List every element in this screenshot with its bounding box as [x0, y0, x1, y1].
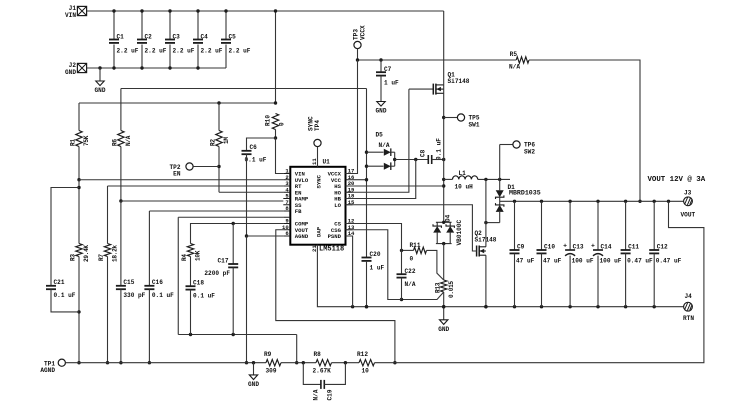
svg-text:FB: FB [295, 208, 302, 215]
svg-text:C14: C14 [601, 244, 612, 251]
svg-text:2.67K: 2.67K [313, 368, 332, 375]
wire C5 top lead [225, 11, 227, 39]
pin nc [283, 216, 290, 218]
capacitor C18 0.1uF [186, 285, 196, 287]
svg-text:0.1 uF: 0.1 uF [54, 292, 76, 299]
svg-text:C16: C16 [152, 279, 163, 286]
svg-text:C12: C12 [657, 244, 668, 251]
svg-text:R3: R3 [70, 254, 77, 261]
wire C16 bottom [148, 289, 150, 363]
capacitor C5 [221, 39, 231, 41]
wire R2 bottom to EN [218, 147, 220, 193]
wire D4 to R13 [443, 244, 445, 280]
svg-text:PSND: PSND [328, 233, 342, 240]
wire C15 top [120, 201, 122, 286]
wire AGND rail [65, 362, 266, 364]
wire COMP net [191, 224, 284, 244]
svg-text:R4: R4 [181, 254, 188, 261]
svg-text:SW2: SW2 [524, 149, 535, 156]
svg-text:TP5: TP5 [469, 115, 480, 122]
svg-text:10K: 10K [195, 250, 202, 261]
wire D1 mid [499, 197, 501, 205]
wire comp ground bus [178, 334, 296, 336]
svg-text:LO: LO [334, 202, 341, 209]
svg-text:R8: R8 [314, 351, 322, 358]
svg-text:0: 0 [410, 256, 414, 263]
svg-text:C5: C5 [229, 34, 237, 41]
wire R11 to R13 top kelvin [427, 250, 444, 280]
svg-text:+: + [563, 243, 567, 250]
wire C9 top [514, 201, 516, 250]
test point TP5 SW1 [444, 117, 458, 119]
svg-text:R12: R12 [357, 351, 368, 358]
wire CS net [346, 224, 402, 275]
svg-text:1 uF: 1 uF [370, 265, 385, 272]
wire D1 to Q2 drain [486, 222, 500, 224]
svg-text:2.2 uF: 2.2 uF [117, 48, 139, 55]
svg-text:0.1 uF: 0.1 uF [152, 292, 174, 299]
svg-text:R5: R5 [510, 51, 518, 58]
wire C4 bottom lead [197, 45, 199, 69]
svg-text:GND: GND [95, 87, 106, 94]
wire C21 top [51, 188, 79, 286]
svg-text:N/A: N/A [125, 135, 132, 146]
wire R2 top [218, 103, 220, 131]
pin 11 SYNC [317, 161, 319, 167]
svg-text:GND: GND [376, 108, 387, 115]
wire C10 bottom [541, 253, 543, 306]
wire D5 to C8 [395, 159, 429, 161]
wire VIN rail to R10 [275, 11, 277, 103]
wire VCCX pin17 [346, 60, 358, 174]
resistor R5 N/A [516, 57, 529, 63]
capacitor C4 [193, 39, 203, 41]
svg-text:+: + [591, 243, 595, 250]
test point TP1 AGND [58, 359, 65, 366]
wire LO to Q2 gate [346, 205, 477, 251]
wire L1 to D1/Q2 [478, 178, 510, 180]
wire VOUT sense [276, 230, 395, 363]
wire HS net [346, 185, 444, 187]
svg-text:2200 pF: 2200 pF [204, 270, 230, 277]
svg-text:J3: J3 [684, 190, 692, 197]
svg-text:0.1 uF: 0.1 uF [436, 138, 443, 160]
wire C11 top [625, 201, 627, 250]
wire R6 bottom [120, 147, 122, 202]
capacitor C3 [165, 39, 175, 41]
svg-text:C4: C4 [201, 34, 209, 41]
wire R12 to VOUT node [375, 362, 395, 364]
wire R1 top [78, 103, 80, 131]
wire GND rail [87, 67, 226, 69]
svg-text:C17: C17 [218, 258, 229, 265]
wire C1 top lead [113, 11, 115, 39]
svg-text:0.1 uF: 0.1 uF [193, 293, 215, 300]
svg-text:R2: R2 [210, 139, 217, 146]
svg-text:1 uF: 1 uF [384, 80, 399, 87]
wire EN to pin4 [219, 191, 283, 193]
svg-text:2.2 uF: 2.2 uF [145, 48, 167, 55]
svg-text:N/A: N/A [379, 142, 390, 149]
svg-text:C22: C22 [405, 268, 416, 275]
svg-text:C21: C21 [54, 279, 65, 286]
wire C2 bottom lead [141, 45, 143, 69]
wire C17 bottom [232, 267, 234, 334]
wire D1 bottom anode [499, 212, 501, 223]
pin 8 FB [283, 210, 290, 212]
svg-text:R10: R10 [265, 115, 272, 126]
resistor R7 18.2k [104, 244, 110, 257]
svg-text:0: 0 [279, 122, 286, 126]
svg-text:330 pF: 330 pF [123, 292, 145, 299]
svg-text:SW1: SW1 [469, 122, 480, 129]
svg-text:75K: 75K [83, 135, 90, 146]
svg-text:C10: C10 [544, 244, 555, 251]
svg-text:D5: D5 [376, 132, 384, 139]
wire PSGND net [346, 236, 353, 307]
svg-text:EN: EN [173, 171, 181, 178]
svg-text:U1: U1 [323, 159, 331, 166]
svg-text:TP4: TP4 [314, 120, 321, 131]
wire PGND rail from DAP [317, 245, 683, 307]
wire D4 bottom bar [436, 243, 452, 245]
svg-text:VB0100C: VB0100C [456, 220, 463, 246]
svg-text:DAP: DAP [316, 226, 323, 237]
wire R10 to VIN pin1 [276, 138, 284, 174]
capacitor C20 1uF [362, 257, 372, 259]
wire VOUT rail [500, 200, 688, 202]
pin 12 CS [346, 223, 353, 225]
svg-text:R9: R9 [264, 351, 272, 358]
pin 16 VCC [346, 179, 353, 181]
wire C12 bottom [653, 253, 655, 306]
pin 21 DAP [317, 245, 319, 251]
svg-text:C18: C18 [193, 280, 204, 287]
svg-text:100 uF: 100 uF [572, 258, 594, 265]
wire C3 bottom lead [169, 45, 171, 69]
wire R10 bottom [275, 130, 277, 139]
wire C5 bottom lead [225, 45, 227, 69]
svg-text:1M: 1M [223, 137, 230, 144]
pin 3 RT [283, 185, 290, 187]
connector J2 GND [77, 63, 86, 72]
op-amp U1 LM5118 controller [290, 167, 345, 245]
pin 6 AGND [283, 235, 290, 237]
svg-text:J2: J2 [69, 62, 77, 69]
wire VIN distribution [79, 102, 276, 104]
svg-text:RTN: RTN [683, 315, 694, 322]
resistor R1 75K [76, 131, 82, 147]
pin 18 HB [346, 198, 353, 200]
svg-text:C2: C2 [145, 34, 153, 41]
svg-text:2.2 uF: 2.2 uF [173, 48, 195, 55]
wire C11 bottom [625, 253, 627, 306]
svg-text:47 uF: 47 uF [543, 258, 562, 265]
wire C13 bottom [569, 256, 571, 307]
wire C1 bottom lead [113, 45, 115, 69]
svg-text:N/A: N/A [509, 64, 520, 71]
svg-text:2.2 uF: 2.2 uF [229, 48, 251, 55]
wire to RAMP pin [121, 200, 283, 202]
svg-text:N/A: N/A [313, 389, 320, 400]
wire D4 top bar [436, 221, 452, 223]
capacitor C15 330pF [116, 285, 126, 287]
svg-text:10 uH: 10 uH [455, 184, 474, 191]
wire HO net [346, 89, 409, 192]
wire VOUT to feedback loop [395, 201, 704, 362]
wire R3 bottom to AGND rail [78, 257, 80, 363]
svg-text:LM5118: LM5118 [319, 246, 344, 254]
wire C2 top lead [141, 11, 143, 39]
wire R8 to R12 [332, 362, 360, 364]
svg-text:2.2 uF: 2.2 uF [201, 48, 223, 55]
wire VCCX to R5 [358, 59, 517, 61]
wire C9 bottom [514, 253, 516, 306]
svg-text:C8: C8 [420, 149, 427, 157]
test point TP3 VCCX [354, 41, 361, 48]
capacitor C1 [109, 39, 119, 41]
test point TP4 SYNC [314, 139, 321, 146]
svg-text:C9: C9 [517, 244, 525, 251]
capacitor C6 [242, 150, 252, 152]
ground symbol under R13 [443, 307, 445, 320]
svg-text:18.2k: 18.2k [112, 245, 119, 262]
pin 9 COMP [283, 223, 290, 225]
wire R7 top [107, 186, 109, 244]
connector J1 VIN [77, 6, 86, 15]
svg-text:C7: C7 [384, 66, 392, 73]
svg-text:100 uF: 100 uF [600, 258, 622, 265]
wire C4 top lead [197, 11, 199, 39]
resistor R4 10K [187, 244, 193, 257]
wire C3 top lead [169, 11, 171, 39]
wire HB net [346, 160, 416, 199]
wire VIN rail [87, 10, 444, 12]
wire to C6 [247, 138, 276, 151]
svg-text:C1: C1 [117, 34, 125, 41]
pin 4 EN [283, 191, 290, 193]
test point TP6 SW2 [500, 144, 513, 146]
svg-text:GND: GND [65, 69, 76, 76]
wire C21 bottom [51, 289, 79, 312]
svg-text:AGND: AGND [295, 233, 309, 240]
wire C14 bottom [597, 256, 599, 307]
wire R6 to VCC net [121, 88, 367, 90]
pin 13 CSG [346, 229, 353, 231]
pin 19 HO [346, 191, 353, 193]
resistor R10 (0 ohm) [272, 114, 278, 130]
wire Q2 drain [485, 179, 487, 246]
wire C12 top [653, 201, 655, 250]
capacitor C8 0.1uF [427, 155, 429, 164]
pin 10 VOUT [283, 229, 290, 231]
wire R3 top [78, 180, 80, 244]
svg-text:C11: C11 [628, 244, 639, 251]
pin 15 LO [346, 204, 353, 206]
svg-text:VIN: VIN [65, 12, 76, 19]
wire Q2 source [485, 255, 487, 307]
pin 7 SS [283, 204, 290, 206]
ground symbol at AGND rail [253, 363, 255, 375]
svg-text:TP6: TP6 [524, 142, 535, 149]
svg-text:0.47 uF: 0.47 uF [627, 258, 653, 265]
wire R13 to pgnd rail [443, 292, 445, 307]
resistor R6 N/A [118, 131, 124, 147]
wire AGND vertical [246, 236, 248, 363]
svg-text:C15: C15 [123, 279, 134, 286]
svg-text:Si7148: Si7148 [448, 78, 470, 85]
wire C7 to gnd [380, 76, 382, 102]
resistor R3 29.4K [76, 244, 82, 257]
wire row8 stub [178, 216, 283, 218]
svg-text:SYNC: SYNC [316, 174, 323, 188]
svg-text:J4: J4 [685, 293, 693, 300]
capacitor C16 0.1uF [144, 285, 154, 287]
connector J4 RTN [684, 302, 693, 311]
pin 5 RAMP [283, 198, 290, 200]
wire C6 bottom to AGND line [246, 154, 248, 236]
svg-text:0.1 uF: 0.1 uF [245, 157, 267, 164]
wire R9 to R8 [281, 362, 316, 364]
svg-text:C13: C13 [573, 244, 584, 251]
wire VCC net vertical [366, 89, 368, 258]
svg-text:MBRD1035: MBRD1035 [509, 190, 541, 197]
wire C14 top [597, 201, 599, 250]
pin 14 PSND [346, 235, 353, 237]
wire C8 to SW [432, 159, 444, 161]
wire R13 bottom kelvin [402, 292, 444, 300]
pin 2 UVLO [283, 179, 290, 181]
wire R4 to C18 [190, 257, 192, 287]
svg-text:R7: R7 [98, 254, 105, 261]
svg-text:R6: R6 [111, 139, 118, 146]
wire D5 anode B [367, 165, 384, 167]
svg-text:R13: R13 [435, 282, 442, 293]
pin 1 VIN [283, 173, 290, 175]
svg-text:C20: C20 [370, 251, 381, 258]
wire R5 to VOUT rail [529, 60, 640, 201]
svg-text:AGND: AGND [40, 367, 55, 374]
wire C18 bottom [190, 290, 192, 335]
test point TP2 EN [186, 163, 193, 170]
svg-text:0.015: 0.015 [448, 281, 455, 298]
pin 17 VCCX [346, 173, 353, 175]
svg-text:GND: GND [438, 326, 449, 333]
svg-text:10: 10 [362, 368, 370, 375]
wire D5 cathode bar [394, 152, 396, 166]
svg-text:VOUT 12V @ 3A: VOUT 12V @ 3A [648, 176, 706, 184]
connector J3 VOUT [684, 197, 693, 206]
wire C17 top [232, 224, 234, 264]
capacitor C7 1uF [380, 60, 382, 72]
svg-text:29.4K: 29.4K [83, 245, 90, 262]
svg-text:VOUT: VOUT [681, 212, 696, 219]
wire AGND pin6 [247, 235, 284, 237]
wire RT net to pin3 [108, 185, 284, 187]
wire C16 top [148, 211, 150, 286]
svg-text:GND: GND [248, 381, 259, 388]
wire AGND comp vertical [177, 217, 179, 334]
wire HO to Q1 gate [409, 88, 433, 90]
capacitor C2 [137, 39, 147, 41]
wire D5 anode A [367, 151, 384, 153]
wire D1 top anode [499, 179, 501, 190]
wire UVLO net to pin2 [79, 179, 283, 181]
wire R1 bottom to UVLO [78, 147, 80, 180]
pin 20 HS [346, 185, 353, 187]
svg-text:47 uF: 47 uF [516, 258, 535, 265]
svg-text:C6: C6 [250, 144, 258, 151]
wire FB net to pin8 [149, 210, 283, 212]
svg-text:C3: C3 [173, 34, 181, 41]
wire C15 bottom [120, 289, 122, 363]
wire R6 top [120, 89, 122, 131]
wire SW node vertical [443, 11, 445, 222]
wire C10 top [541, 201, 543, 250]
wire to AGND rail [296, 335, 298, 363]
svg-text:0.47 uF: 0.47 uF [656, 258, 682, 265]
svg-text:J1: J1 [69, 5, 77, 12]
svg-text:TP3: TP3 [353, 29, 360, 40]
resistor R13 0.015 [441, 280, 447, 292]
wire CSG net [346, 230, 402, 300]
svg-text:N/A: N/A [405, 281, 416, 288]
ground symbol at input [98, 66, 101, 69]
svg-text:R1: R1 [70, 139, 77, 146]
capacitor C19 N/A (parallel R8) [303, 363, 321, 385]
resistor R2 1M [216, 131, 222, 147]
wire C13 top [569, 201, 571, 250]
wire R7 bottom to AGND rail [107, 257, 109, 363]
svg-text:309: 309 [266, 368, 277, 375]
svg-text:D4: D4 [445, 214, 452, 222]
svg-text:C19: C19 [327, 389, 334, 400]
wire C20 bottom [366, 261, 368, 307]
svg-text:VCCX: VCCX [360, 25, 367, 40]
